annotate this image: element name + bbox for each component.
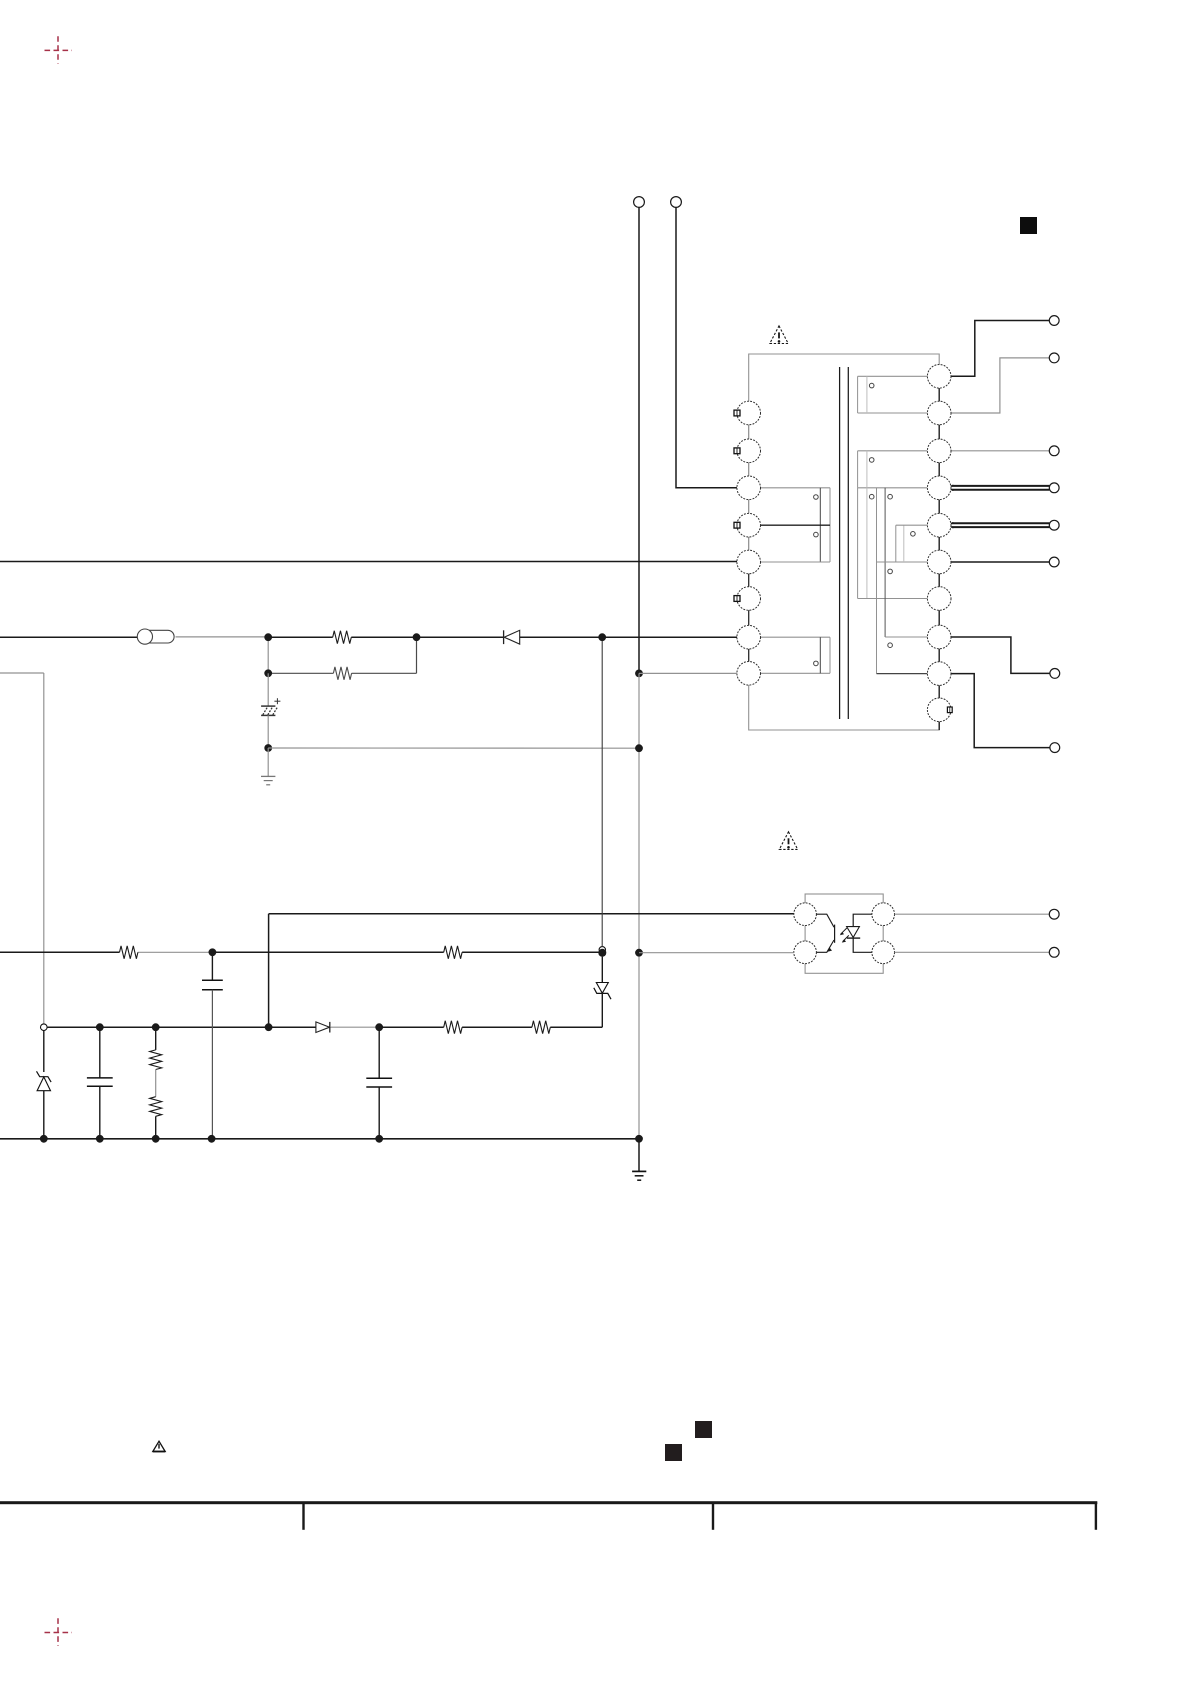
registration mark bottom-left <box>45 1618 72 1646</box>
ground (secondary) <box>632 1171 646 1180</box>
transformer T1 right pin H <box>927 625 951 649</box>
transformer T1 right pin D <box>927 476 951 500</box>
node N9 <box>265 1023 273 1031</box>
pin polarity square mark <box>734 410 740 416</box>
secondary winding S3 (pins D-G) <box>858 488 928 599</box>
optocoupler pin 4 <box>872 903 895 926</box>
wire node C to node N9 rail <box>47 1026 265 1028</box>
pin polarity square mark (pin J) <box>947 707 952 713</box>
terminal node C (open circle) <box>41 1024 48 1031</box>
wire feedback corner down to node N9 <box>268 914 270 1027</box>
wire resistor R8 to ground rail <box>155 1116 157 1139</box>
wire capacitor C2 to ground rail <box>99 1086 101 1139</box>
terminal T4 <box>1049 483 1059 493</box>
wire node A to pin 8 <box>639 672 737 674</box>
transformer T1 right pin B <box>927 401 951 425</box>
wire resistor R4 to shunt node <box>462 951 598 953</box>
transformer T1 left pin 5 <box>737 550 761 574</box>
transformer T1 left pin 7 <box>737 625 761 649</box>
wire capacitor C4 to ground rail <box>378 1087 380 1139</box>
wire node C to zener ZD1 <box>43 1031 45 1073</box>
wire pin H to terminal T7 <box>951 637 1050 673</box>
secondary winding S5 (pins E-F) <box>896 525 928 562</box>
transformer T1 right pin C <box>927 439 951 463</box>
wire capacitor C1 to node N5 <box>267 715 269 748</box>
terminal T3 <box>1049 446 1059 456</box>
wire zener ZD1 to ground rail <box>43 1091 45 1139</box>
bottom rule tick 2 <box>712 1502 714 1530</box>
node N5 <box>264 744 272 752</box>
terminal T6 <box>1049 557 1059 567</box>
wire pin A to terminal T1 <box>951 321 1050 377</box>
wire node N10 to capacitor C2 <box>99 1027 101 1078</box>
fuse F1 <box>137 629 174 644</box>
wire node N4 through resistor R2 up to node N2 <box>268 637 416 673</box>
secondary winding S1 (pins A-B) <box>858 376 928 413</box>
wire node G6 to ground <box>638 1139 640 1172</box>
transformer T1 right pin E <box>927 513 951 537</box>
node A (J1 line junction) <box>635 670 643 678</box>
transformer T1 left pin 8 <box>737 662 761 686</box>
pin polarity square mark <box>734 522 740 528</box>
transformer T1 outline top <box>749 354 940 413</box>
node G6 <box>635 1135 643 1143</box>
transformer T1 right pin A <box>927 365 951 389</box>
terminal T7 <box>1050 669 1060 679</box>
wire node N2 to diode D1 <box>417 636 504 638</box>
wire diode D2 to node N12 <box>331 1026 376 1028</box>
wire node N12 to capacitor C4 <box>378 1027 380 1078</box>
secondary winding S4 (pins D-H-I) <box>877 488 928 674</box>
wire node N7 to resistor R4 <box>212 951 443 953</box>
transformer T1 right pin I <box>927 662 951 686</box>
transformer T1 outline bottom <box>749 673 940 730</box>
node N10 <box>96 1023 104 1031</box>
optocoupler pin 1 <box>794 903 817 926</box>
terminal J1 (AC line, top) <box>634 197 645 208</box>
wire pin B to terminal T2 <box>951 358 1050 413</box>
wire fuse to node N1 <box>176 636 267 638</box>
node G3 <box>152 1135 160 1143</box>
black index square top-right <box>1020 217 1037 234</box>
diode D2 <box>316 1022 330 1033</box>
capacitor C4 <box>366 1078 392 1087</box>
wire diode D1 to node N3 <box>520 636 599 638</box>
heavy twin wire pin E to terminal T5 <box>946 523 1049 528</box>
wire optocoupler pin 3 to terminal T10 <box>895 951 1050 953</box>
terminal J2 (AC line, top) <box>671 197 682 208</box>
node G2 <box>96 1135 104 1143</box>
node G1 <box>40 1135 48 1143</box>
node N12 <box>375 1023 383 1031</box>
wire node N5 to ground <box>267 748 269 776</box>
bottom rule tick 3 <box>1095 1502 1097 1530</box>
transformer T1 left pin 4 <box>737 513 761 537</box>
optocoupler PC1 light arrows <box>840 928 849 943</box>
primary winding W3 (pins 7-8) <box>760 637 831 673</box>
wire node N3 to pin 7 <box>606 636 738 638</box>
node G4 <box>208 1135 216 1143</box>
node N7 <box>209 948 217 956</box>
wire node N11 to resistor R7 <box>155 1027 157 1050</box>
wire node N12 through resistors R5 R6 to shunt <box>379 1026 602 1028</box>
wire node N3 down to shunt regulator <box>601 641 603 947</box>
node G5 <box>375 1135 383 1143</box>
capacitor C3 <box>202 980 223 990</box>
transformer T1 right pin J <box>927 698 951 722</box>
transformer T1 left pin 1 <box>737 401 761 425</box>
transformer T1 right pin F <box>927 550 951 574</box>
optocoupler PC1 phototransistor <box>816 914 834 952</box>
wire left stub to node C <box>0 673 44 1024</box>
node N8 <box>635 949 643 957</box>
wire mains to pin 5 <box>0 561 737 563</box>
wire J1 vertical to node A <box>638 207 640 671</box>
resistor R8 <box>150 1097 162 1117</box>
resistor R6 <box>532 1021 550 1034</box>
wire node N1 down to node N4 <box>267 637 269 673</box>
wire resistor R7 to resistor R8 <box>155 1070 157 1097</box>
transformer T1 left pin 2 <box>737 439 761 463</box>
wire optocoupler pin 4 to terminal T9 <box>895 913 1050 915</box>
resistor R2 <box>333 667 351 680</box>
wire node N5 to node N6 (gray rail) <box>268 747 639 749</box>
wire node N4 to capacitor C1 <box>267 673 269 706</box>
node N6 <box>635 744 643 752</box>
registration mark top-left <box>45 36 72 64</box>
warning triangle (optocoupler) <box>779 832 797 850</box>
primary winding W2 (pins 4-5) <box>760 525 831 562</box>
wire pin I to terminal T8 <box>951 674 1050 748</box>
terminal T1 <box>1049 316 1059 326</box>
transformer T1 core <box>840 367 849 719</box>
terminal T5 <box>1049 520 1059 530</box>
resistor R7 <box>150 1050 162 1070</box>
black index square (note 1) <box>665 1444 682 1461</box>
wire capacitor C3 to ground rail <box>211 990 213 1139</box>
optocoupler PC1 body <box>805 894 883 973</box>
resistor R4 <box>444 946 462 959</box>
node N11 <box>152 1023 160 1031</box>
ground rail wire <box>0 1138 639 1140</box>
transformer T1 left pin 3 <box>737 476 761 500</box>
transformer T1 right pin G <box>927 587 951 611</box>
transformer T1 left pin 6 <box>737 587 761 611</box>
wire feedback to optocoupler pin 1 <box>269 913 794 915</box>
wire node N9 to diode D2 <box>269 1026 316 1028</box>
wire J2 vertical then right to T1 pin 3 <box>676 207 737 487</box>
node N2 <box>413 633 421 641</box>
wire sense line through resistor R3 <box>0 951 209 953</box>
pin polarity square mark <box>734 596 740 602</box>
small warning triangle (note) <box>153 1441 165 1451</box>
heavy twin wire pin D to terminal T4 <box>946 485 1049 490</box>
terminal T8 <box>1050 743 1060 753</box>
wire node A down secondary-common <box>638 673 640 1138</box>
bottom rule tick 1 <box>302 1502 304 1530</box>
optocoupler pin 3 <box>872 941 895 964</box>
bottom rule <box>0 1501 1097 1504</box>
node N3 <box>598 633 606 641</box>
black index square (note 2) <box>695 1421 712 1438</box>
optocoupler pin 2 <box>794 941 817 964</box>
zener diode ZD1 <box>37 1071 52 1090</box>
warning triangle (transformer) <box>770 326 788 344</box>
secondary winding S2 (pins C-D) <box>858 451 928 488</box>
primary winding W1 (pins 3-4) <box>760 488 831 562</box>
wire node N1 through resistor R1 to node N2 <box>268 636 414 638</box>
resistor R1 <box>333 631 352 644</box>
diode D1 <box>504 630 520 644</box>
terminal T9 <box>1049 909 1059 919</box>
node N1 <box>264 633 272 641</box>
wire node N7 to capacitor C3 <box>211 952 213 980</box>
wire pin F to terminal T6 <box>951 561 1050 563</box>
shunt regulator Q1 (programmable zener) <box>594 957 611 1028</box>
pin polarity square mark <box>734 448 740 454</box>
shunt reference node (circle+dot) <box>598 947 606 957</box>
wire mains to fuse F1 <box>0 636 137 638</box>
resistor R5 <box>444 1021 462 1034</box>
electrolytic capacitor C1 <box>261 698 280 715</box>
capacitor C2 <box>87 1078 113 1086</box>
terminal T2 <box>1049 353 1059 363</box>
transformer left pin chain <box>748 413 750 673</box>
resistor R3 <box>120 946 138 959</box>
ground (primary) <box>261 776 275 784</box>
transformer right pin chain <box>938 376 940 730</box>
terminal T10 <box>1049 947 1059 957</box>
optocoupler PC1 LED <box>847 914 872 952</box>
node N4 <box>264 669 272 677</box>
wire node N8 to optocoupler pin 2 <box>639 952 794 954</box>
wire pin C to terminal T3 <box>951 450 1050 452</box>
